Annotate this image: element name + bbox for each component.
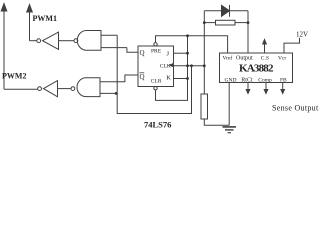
svg-text:12V: 12V (296, 31, 308, 39)
svg-text:Vcr: Vcr (278, 56, 286, 62)
svg-text:PRE: PRE (151, 48, 162, 54)
svg-text:PWM1: PWM1 (33, 14, 57, 23)
svg-text:Q: Q (140, 49, 145, 57)
svg-text:FB: FB (280, 78, 287, 84)
svg-text:GND: GND (225, 78, 237, 84)
svg-text:Vref: Vref (223, 55, 233, 62)
svg-text:Output: Output (236, 56, 253, 62)
svg-text:CLR: CLR (151, 79, 162, 85)
svg-text:K: K (166, 75, 171, 82)
svg-text:Q: Q (140, 73, 145, 81)
svg-text:C.S: C.S (261, 56, 269, 62)
svg-text:74LS76: 74LS76 (144, 120, 171, 130)
svg-text:PWM2: PWM2 (2, 72, 26, 81)
svg-text:RtCt: RtCt (241, 78, 253, 84)
svg-text:J: J (167, 51, 170, 58)
svg-text:Comp: Comp (258, 78, 272, 84)
svg-text:Sense Output: Sense Output (272, 104, 319, 113)
svg-text:KA3882: KA3882 (239, 63, 274, 75)
svg-text:CLK: CLK (160, 64, 171, 70)
